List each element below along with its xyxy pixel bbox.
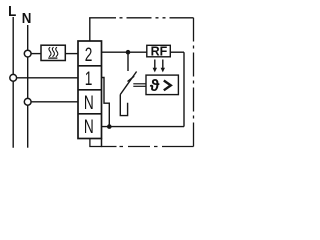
RF label bbox=[151, 43, 168, 58]
svg-text:2: 2 bbox=[85, 44, 93, 66]
wire right edge down bbox=[183, 52, 185, 126]
svg-text:L: L bbox=[8, 2, 17, 19]
switch lower U contact bbox=[120, 95, 127, 116]
wire heater box to terminal 2 bbox=[65, 53, 78, 55]
control arrow 2 RF to S bbox=[161, 60, 165, 73]
actuator S box bbox=[146, 75, 178, 95]
svg-text:RF: RF bbox=[151, 43, 168, 58]
wire N circle to heater box bbox=[31, 53, 41, 55]
enclosure chain-line bottom edge bbox=[120, 146, 194, 148]
node L label bbox=[8, 2, 17, 19]
node N label bbox=[22, 9, 32, 26]
terminal label 2 bbox=[85, 44, 93, 66]
wire L line vertical bbox=[12, 17, 14, 148]
RF box U1 bbox=[147, 45, 171, 57]
terminal circle on N line lower bbox=[24, 98, 31, 105]
terminal cell divider 1/N bbox=[78, 89, 102, 91]
terminal label N (upper) bbox=[84, 92, 94, 114]
wire terminal 2 top to enclosure bbox=[89, 18, 91, 41]
wire L circle to terminal 1 bbox=[17, 77, 78, 79]
switch fixed post from junction bbox=[127, 52, 129, 71]
branch wire from terminal block edge down to N wire bbox=[102, 78, 110, 127]
svg-text:N: N bbox=[84, 116, 94, 138]
actuator theta (temperature) symbol bbox=[150, 77, 160, 95]
terminal label 1 bbox=[85, 68, 93, 90]
enclosure chain-line top edge bbox=[120, 17, 194, 19]
wire RF box to right edge bbox=[170, 51, 184, 53]
svg-text:N: N bbox=[22, 9, 32, 26]
terminal cell divider 2/1 bbox=[78, 65, 102, 67]
mechanical link double line lower bbox=[133, 85, 146, 87]
enclosure chain-line top edge (solid lead-in) bbox=[89, 17, 116, 19]
wire bottom across to terminal N bbox=[102, 126, 185, 128]
terminal circle on N line bbox=[24, 50, 31, 57]
switch blade Q bbox=[120, 72, 136, 95]
control arrow 1 RF to S bbox=[153, 60, 157, 73]
svg-text:ϑ: ϑ bbox=[150, 77, 160, 95]
junction dot above switch bbox=[126, 50, 131, 55]
junction dot on N wire bbox=[107, 124, 112, 129]
wire terminal block right edge continuation to enclosure bottom bbox=[101, 139, 103, 148]
heater (heating element) box bbox=[41, 45, 65, 60]
switch actuator tick bbox=[128, 76, 135, 81]
wire N circle to terminal N bbox=[31, 101, 78, 103]
actuator arrow glyph bbox=[164, 81, 171, 91]
terminal circle on L line bbox=[10, 74, 17, 81]
wire terminal 2 to RF box bbox=[102, 51, 147, 53]
wire N line vertical bbox=[27, 25, 29, 148]
terminal cell divider N/N bbox=[78, 113, 102, 115]
terminal label N (lower) bbox=[84, 116, 94, 138]
mechanical link double line upper bbox=[133, 83, 146, 85]
svg-text:N: N bbox=[84, 92, 94, 114]
terminal block outline bbox=[78, 41, 102, 139]
svg-text:1: 1 bbox=[85, 68, 93, 90]
enclosure chain-line right edge bbox=[193, 18, 195, 147]
heater symbol wavy strokes bbox=[48, 47, 58, 58]
enclosure bottom solid lead-in to terminal N bbox=[90, 139, 117, 147]
